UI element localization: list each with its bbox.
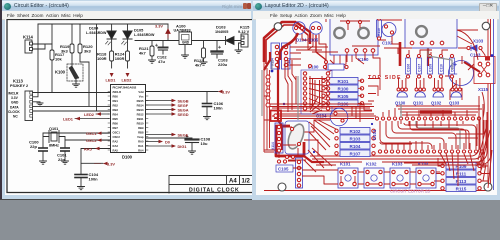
wire misc diagonals top (308, 16, 400, 66)
connector X116 pcb (296, 158, 303, 188)
diode D103 (215, 25, 234, 45)
svg-text:L-934SRDW: L-934SRDW (134, 33, 155, 37)
svg-text:C105: C105 (278, 167, 289, 172)
capacitor C102 (155, 41, 167, 65)
wire socket inner verticals (310, 76, 322, 108)
svg-text:K115: K115 (240, 25, 250, 30)
svg-text:D0: D0 (165, 140, 170, 145)
svg-text:RB11: RB11 (137, 117, 144, 121)
wire K113 supply drop (33, 24, 39, 97)
wire thick trace relay2 left (399, 42, 402, 66)
node RA5 red (84, 146, 100, 151)
svg-text:RB9: RB9 (138, 126, 144, 130)
ground below K115 (235, 50, 242, 53)
pads connector X116 (297, 160, 300, 163)
title block (169, 176, 256, 194)
pads relay K100 (345, 49, 349, 53)
svg-text:RB2: RB2 (113, 104, 119, 108)
gray traces (401, 48, 460, 149)
pads crystal (290, 127, 293, 130)
pads R110 (377, 17, 380, 20)
svg-text:RB13: RB13 (137, 108, 144, 112)
voltage regulator A100 (174, 24, 192, 45)
svg-text:3.3V: 3.3V (155, 24, 163, 29)
svg-text:Vss: Vss (139, 95, 144, 99)
connector K113 (8, 79, 33, 121)
node 3.3V right arrow (218, 90, 230, 95)
pads left column (266, 75, 270, 79)
svg-text:22p: 22p (30, 144, 37, 149)
right window: Layout Editor 2D (PCB) (252, 0, 500, 200)
wire traces from right resistors (434, 158, 490, 181)
svg-text:SEGD: SEGD (178, 112, 189, 117)
pads D104 D105 (294, 26, 297, 29)
svg-text:LED1: LED1 (106, 78, 117, 83)
button K102 pcb (364, 168, 384, 188)
button K101 pcb (338, 168, 358, 188)
wire thick trace relay2 right (434, 14, 437, 48)
mounting hole bottom-left (278, 183, 286, 191)
capacitor C108 (186, 136, 211, 152)
svg-text:3k3: 3k3 (84, 49, 91, 54)
resistor R100 pcb (328, 85, 358, 92)
svg-text:DATA: DATA (10, 105, 19, 109)
svg-text:100R: 100R (97, 56, 107, 61)
svg-text:GND: GND (11, 101, 19, 105)
svg-text:1/2: 1/2 (242, 179, 251, 185)
pads relay K116 (410, 41, 414, 45)
capacitor C106 (203, 101, 224, 117)
resistor R101 pcb (328, 78, 358, 85)
wire trace crystal right (304, 120, 330, 156)
svg-text:K102: K102 (366, 162, 377, 167)
wire Vdd row right (146, 92, 219, 104)
svg-text:DIGITAL CLOCK: DIGITAL CLOCK (189, 187, 240, 193)
mounting hole top-right (482, 22, 490, 30)
mounting hole top-left (274, 23, 282, 31)
blue labels (276, 38, 489, 173)
resistor R102 pcb (340, 128, 370, 135)
pads resistor group A (322, 79, 364, 105)
resistor R113 pcb (446, 178, 476, 185)
dense trace layer (264, 16, 492, 188)
wire gray mid (271, 60, 273, 70)
node SEGD arrow right (172, 112, 189, 117)
svg-text:GND: GND (182, 41, 190, 45)
LED D105 (122, 24, 155, 51)
wire bottom mid (316, 162, 438, 165)
ground below A100 (182, 45, 189, 59)
svg-text:R113: R113 (456, 179, 467, 184)
pads C105 (277, 160, 280, 163)
pads scattered (266, 61, 328, 159)
wire gray trace 2 (416, 121, 460, 149)
node SEGF arrow right (172, 103, 189, 108)
svg-text:100R: 100R (115, 56, 125, 61)
wire traces D100 to resistors (309, 79, 330, 111)
svg-text:L-934SRDW: L-934SRDW (86, 31, 107, 35)
svg-text:X115: X115 (478, 87, 489, 92)
wire board right edge (488, 17, 491, 191)
svg-text:K100: K100 (55, 70, 66, 75)
wire traces top bundle (312, 14, 402, 20)
wire Vcap row to C108 (146, 138, 193, 139)
capacitor row C106-C110 pcb (406, 58, 455, 74)
resistor R106 pcb (328, 100, 358, 107)
svg-text:9-12 V: 9-12 V (238, 30, 250, 34)
wire left edge drop (264, 96, 274, 152)
node 3.3V bottom arrow (94, 162, 115, 167)
wire comb bottom header (386, 141, 476, 149)
svg-text:CIRCUIT EDITOR 2D: CIRCUIT EDITOR 2D (390, 189, 430, 194)
svg-text:R110: R110 (377, 28, 381, 36)
resistor R117 (50, 24, 65, 92)
wire button links (358, 172, 440, 184)
resistor R103 pcb (340, 135, 370, 142)
pads layer (275, 17, 490, 190)
wire K114 to node (33, 44, 53, 49)
wire RA5 row to C104 (81, 149, 111, 175)
connector X117 pcb red box (271, 111, 282, 122)
node SEGB arrow right (172, 99, 189, 104)
connector K115 (238, 25, 250, 51)
svg-text:C102: C102 (382, 41, 393, 46)
button K103 pcb (390, 168, 410, 188)
svg-text:RA4: RA4 (138, 149, 144, 153)
pads header top row (375, 117, 480, 120)
svg-text:C106: C106 (406, 64, 410, 72)
svg-text:R111: R111 (456, 171, 467, 176)
svg-text:D103: D103 (216, 25, 226, 30)
node D0 red label (159, 140, 170, 145)
socket D100 pcb (301, 70, 332, 114)
wire traces bottom right diagonals (478, 120, 490, 168)
pads resistor group C (441, 164, 481, 190)
node 3.3V tap (81, 162, 103, 164)
wire traces buttons row (341, 176, 434, 184)
svg-text:10k: 10k (55, 57, 62, 62)
crystal Q101 (49, 127, 59, 148)
wire thick bottom left ring (276, 126, 304, 156)
svg-text:RB6: RB6 (113, 122, 119, 126)
svg-text:R102: R102 (350, 129, 361, 134)
svg-text:RB1: RB1 (113, 99, 119, 103)
svg-text:PS2KEY 2: PS2KEY 2 (10, 84, 28, 88)
relay K100 pcb (330, 17, 378, 55)
wire thick trace mid (278, 60, 282, 150)
wire thick supply trace top left (264, 22, 296, 62)
svg-text:LED2: LED2 (122, 78, 133, 83)
node LED2 label (122, 68, 133, 83)
resistor R115 pcb (446, 185, 476, 192)
transistor Q103 pcb (449, 92, 461, 106)
node LED1 label (106, 68, 117, 83)
svg-text:100n: 100n (214, 106, 224, 111)
wire thick diagonal X103 (464, 62, 480, 72)
svg-text:RB4: RB4 (113, 113, 119, 117)
wire trace D105 down (316, 35, 326, 70)
component D106 pcb (328, 64, 344, 70)
label C105 boxed (276, 165, 293, 172)
svg-text:OSC2: OSC2 (113, 135, 121, 139)
connector X115 pcb (474, 57, 495, 84)
svg-text:3k3: 3k3 (61, 49, 68, 54)
svg-text:RA3: RA3 (113, 144, 119, 148)
wire gray trace 3 (400, 104, 402, 118)
connector X114 pcb (271, 123, 283, 153)
wire traces under TOP SIDE (272, 108, 374, 114)
wire traces relay1 to D100 (328, 55, 352, 72)
pads C104 (334, 112, 337, 115)
wire crystal diagonals (309, 120, 336, 150)
svg-text:3.3V: 3.3V (222, 90, 230, 95)
svg-text:3.3V: 3.3V (107, 162, 115, 167)
wire traces bottom bundle (288, 156, 480, 163)
svg-text:RB0: RB0 (113, 95, 119, 99)
wire traces K117 to socket (290, 47, 301, 65)
wire stub headers (383, 108, 467, 116)
svg-text:X114: X114 (271, 142, 275, 150)
pads capacitor row (406, 54, 453, 78)
capacitor C100 (29, 140, 47, 162)
svg-text:220u: 220u (218, 62, 228, 67)
wire X114 links (264, 150, 279, 158)
svg-text:Q102: Q102 (431, 101, 442, 106)
svg-text:Q101: Q101 (49, 127, 58, 131)
svg-text:X103: X103 (473, 39, 484, 44)
wire rail right section (135, 40, 240, 42)
svg-text:RA1: RA1 (138, 144, 144, 148)
wire bottom left links (288, 161, 338, 184)
svg-text:D101: D101 (372, 129, 377, 140)
svg-text:/MCLR: /MCLR (8, 91, 19, 95)
wire caps row tops (398, 48, 448, 54)
resistor R118 (97, 51, 114, 68)
board top edge (264, 16, 488, 18)
wire traces mid horizontals (270, 104, 376, 119)
wire board bottom edge (264, 190, 488, 192)
resistor R110 pcb (377, 20, 382, 37)
svg-text:R104: R104 (350, 144, 361, 149)
svg-text:100n: 100n (89, 177, 99, 182)
svg-text:Vcap: Vcap (137, 135, 144, 139)
capacitor C104 (75, 172, 99, 187)
resistor R109 pcb (446, 163, 476, 170)
wire nested bus 5 (404, 123, 476, 149)
svg-text:OSC1: OSC1 (113, 131, 121, 135)
svg-text:K114: K114 (23, 35, 33, 40)
svg-text:D104: D104 (89, 26, 99, 31)
svg-text:/MCLR: /MCLR (113, 90, 122, 94)
svg-text:R103: R103 (350, 136, 361, 141)
wire left bundle verticals (285, 60, 301, 112)
ground below switch (73, 81, 80, 87)
svg-text:3.3V: 3.3V (11, 96, 19, 100)
resistor R104 pcb (340, 143, 370, 150)
wire rail drop (167, 24, 169, 41)
ground at K113 GND pin (33, 102, 44, 106)
wire OSC1 row (43, 133, 111, 148)
relay K116 pcb (405, 16, 457, 49)
wire right edge nested turns (402, 96, 491, 165)
wire fan bottom right (440, 153, 474, 186)
svg-text:A4: A4 (229, 179, 237, 185)
resistor R111 pcb (446, 170, 476, 177)
svg-text:RB3: RB3 (113, 108, 119, 112)
svg-text:D105: D105 (134, 28, 144, 33)
transistor Q102 pcb (431, 92, 443, 106)
svg-text:RA0: RA0 (138, 140, 144, 144)
wire traces right of resistor group A (368, 79, 380, 102)
svg-text:C110: C110 (439, 64, 443, 72)
svg-text:OSC1: OSC1 (86, 131, 97, 136)
svg-text:RB10: RB10 (137, 122, 144, 126)
node SEGA arrow right (172, 108, 189, 113)
node OSC1 arrow (86, 131, 102, 136)
wire gray left 1 (261, 70, 263, 116)
resistor R119 (60, 24, 74, 66)
button K104 pcb (416, 168, 436, 188)
capacitor C103 (212, 41, 229, 68)
svg-text:TOP SIDE: TOP SIDE (368, 75, 402, 81)
ground below R121 (149, 60, 156, 63)
svg-text:NC: NC (13, 115, 18, 119)
svg-text:RB12: RB12 (137, 113, 144, 117)
wire right arcs (457, 30, 484, 118)
svg-text:R100: R100 (338, 86, 349, 91)
mounting hole bottom-right (484, 183, 492, 191)
wire bus returns (380, 120, 484, 144)
pads resistor group B (335, 129, 375, 155)
ground below C108 (189, 151, 196, 154)
left window: Circuit Editor (schematic) (0, 0, 252, 200)
svg-text:47u: 47u (158, 59, 165, 64)
LED D104 (86, 24, 116, 51)
IC D100 (108, 85, 148, 160)
wire crossing to CLOCK row (96, 24, 98, 111)
node OSC2 arrow (86, 138, 102, 143)
pads C103 X103 (467, 46, 470, 49)
wire trace relay2 to K115 (457, 30, 478, 44)
connector K114 (23, 35, 33, 54)
svg-text:1N4005: 1N4005 (215, 30, 228, 34)
wire crystal links (283, 127, 298, 156)
ground below C104 (78, 187, 85, 190)
wire comb top header (401, 121, 463, 128)
svg-text:Q101: Q101 (413, 101, 424, 106)
svg-text:R101: R101 (338, 79, 349, 84)
svg-text:RB8: RB8 (138, 131, 144, 135)
pads misc (286, 156, 289, 159)
svg-text:C107: C107 (417, 64, 421, 72)
svg-text:R115: R115 (456, 186, 467, 191)
wire thick trace to D104 (296, 22, 310, 44)
wire gray left 2 (297, 76, 299, 120)
svg-text:C103: C103 (470, 53, 481, 58)
ground below C100 (40, 161, 47, 164)
resistor R105 pcb (328, 93, 358, 100)
wire trace C103 area (445, 76, 488, 100)
wire /MCLR row (33, 91, 111, 94)
pads buttons (340, 170, 434, 185)
wire Q stubs (399, 78, 460, 88)
wire solid bar top of bus (420, 110, 452, 113)
resistor R120 (78, 24, 93, 106)
svg-text:PIC24FJ64GA002: PIC24FJ64GA002 (113, 86, 137, 90)
wire group A left links (310, 81, 362, 114)
wire right vertical bundle (481, 120, 486, 170)
svg-text:K113: K113 (13, 79, 23, 84)
ground below R123 (200, 62, 207, 65)
button caps circles (345, 175, 429, 181)
wire crystal to buttons diagonals (304, 148, 332, 172)
svg-text:DIG1: DIG1 (178, 144, 188, 149)
resistor R124 (115, 51, 130, 68)
via dots (271, 54, 494, 153)
wire traces relay1 drops (347, 52, 380, 76)
svg-text:C109: C109 (428, 64, 432, 72)
svg-text:CLOCK: CLOCK (8, 110, 20, 114)
node RB6 arrow left (84, 112, 101, 117)
ground below C101 (62, 161, 69, 164)
LED D105 pcb (310, 22, 322, 34)
LED D104 pcb (293, 22, 305, 34)
wire arrow-row leads (75, 101, 172, 149)
pads X115 (478, 62, 482, 66)
header K117 pcb (271, 43, 291, 69)
ground below C106 (204, 117, 211, 120)
svg-text:RB7: RB7 (113, 126, 119, 130)
transistor Q101 pcb (413, 92, 425, 106)
svg-text:RA2: RA2 (113, 140, 119, 144)
svg-text:Vdd: Vdd (138, 90, 143, 94)
blue layer right edge (493, 18, 495, 190)
wire trace X103 (458, 48, 485, 62)
wire DATA row (33, 105, 111, 107)
capacitor C103 pcb (449, 61, 474, 86)
svg-text:RB5: RB5 (113, 117, 119, 121)
svg-text:OSC2: OSC2 (86, 138, 97, 143)
wire 3.3V rail top (38, 23, 168, 25)
svg-text:4k7: 4k7 (139, 51, 146, 56)
resistor R121 (139, 41, 154, 61)
node SEGE arrow right (172, 133, 189, 138)
node DIG1 arrow right (172, 144, 188, 149)
wire nested bus 1 (380, 121, 432, 149)
svg-text:10u: 10u (201, 141, 208, 146)
wire header row arcs right (477, 120, 483, 150)
svg-text:RA5: RA5 (113, 149, 119, 153)
transistors Q100-Q103 (395, 92, 461, 106)
wire traces LED drops (296, 34, 326, 60)
wire nested bus 3 (392, 121, 456, 149)
wire traces Q row to header (396, 106, 482, 115)
capacitor C102 pcb (382, 23, 396, 37)
wire thick S-curve (280, 33, 298, 60)
drawing frame border (7, 20, 256, 193)
svg-text:8MHz: 8MHz (49, 144, 59, 148)
svg-text:LED2: LED2 (84, 112, 95, 117)
silkscreen layer (271, 16, 496, 189)
svg-text:Q103: Q103 (449, 101, 460, 106)
wire nested bus 2 (386, 121, 444, 149)
node RB7 arrow left (63, 116, 80, 121)
svg-text:D100: D100 (122, 155, 133, 160)
svg-text:SEGE: SEGE (178, 133, 189, 138)
node 3.3V at rail (155, 24, 170, 39)
svg-text:R107: R107 (350, 151, 361, 156)
resistor R107 pcb (340, 150, 370, 157)
